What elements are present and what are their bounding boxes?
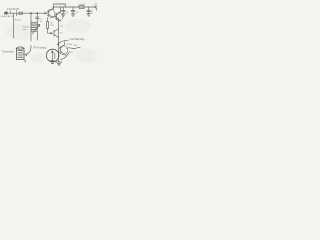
- svg-text:Transmitter: Transmitter: [2, 50, 14, 53]
- svg-text:Ant 9V: Ant 9V: [15, 19, 22, 22]
- svg-text:Batt: Batt: [94, 5, 98, 8]
- svg-text:T3: T3: [60, 32, 62, 34]
- svg-text:1n: 1n: [91, 12, 93, 14]
- svg-text:REGULATOR: REGULATOR: [1, 15, 14, 18]
- svg-text:L2 RFC: L2 RFC: [79, 4, 86, 6]
- svg-text:R2: R2: [61, 26, 63, 28]
- svg-text:2k2: 2k2: [74, 45, 77, 47]
- svg-text:osc: osc: [70, 52, 73, 54]
- svg-text:4.5V BULB: 4.5V BULB: [7, 8, 19, 11]
- svg-text:Low Bolt Key: Low Bolt Key: [70, 37, 86, 41]
- svg-text:1k: 1k: [65, 55, 67, 57]
- svg-text:RF Housing: RF Housing: [34, 46, 47, 49]
- svg-text:BC548: BC548: [67, 44, 73, 46]
